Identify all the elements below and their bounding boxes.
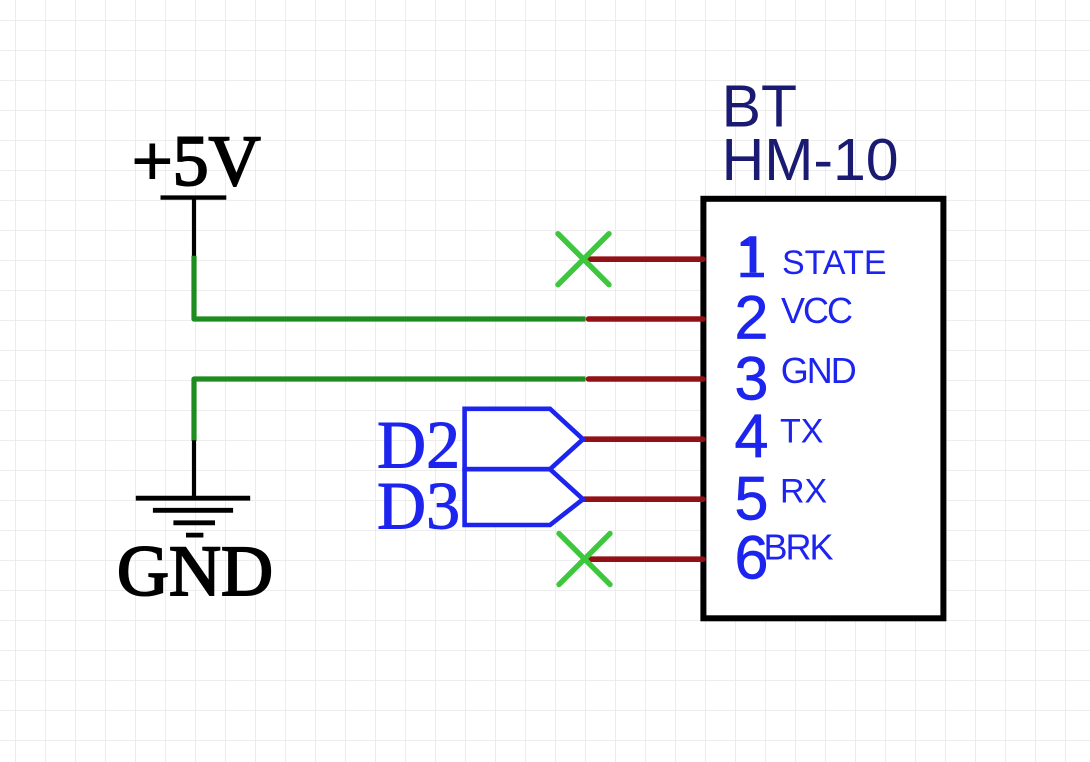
- svg-text:+5V: +5V: [132, 121, 261, 201]
- no-connect X on pin 1: [558, 234, 609, 285]
- svg-text:TX: TX: [780, 413, 823, 451]
- svg-text:2: 2: [735, 283, 769, 351]
- svg-text:HM-10: HM-10: [722, 127, 899, 193]
- net flag D2 (pin 4): [465, 409, 583, 469]
- ground symbol bar 2: [153, 508, 233, 513]
- pin 6 lead (BRK): [585, 556, 703, 562]
- no-connect X on pin 6: [559, 534, 610, 585]
- svg-text:D3: D3: [377, 468, 460, 544]
- pin 1 lead (STATE): [586, 256, 703, 262]
- pin number 1: [740, 236, 764, 277]
- wire pin 3 GND to ground symbol (green): [194, 379, 586, 441]
- svg-text:BRK: BRK: [764, 527, 834, 568]
- ground symbol bar 1: [136, 496, 250, 501]
- net flag D3 (pin 5): [465, 469, 583, 525]
- pin 3 lead (GND): [589, 376, 704, 382]
- wire +5V to pin 2 VCC (green): [194, 256, 586, 319]
- IC U1 body (BT HM-10): [703, 199, 943, 619]
- svg-text:GND: GND: [117, 531, 273, 611]
- svg-text:RX: RX: [780, 472, 827, 510]
- svg-text:5: 5: [735, 465, 769, 533]
- ground symbol bar 3: [173, 520, 215, 525]
- power symbol +5V bar: [161, 195, 227, 199]
- pin 4 lead (TX): [584, 436, 703, 442]
- ground symbol bar 4: [186, 533, 203, 538]
- svg-text:GND: GND: [781, 350, 856, 391]
- pin 2 lead (VCC): [589, 316, 704, 322]
- svg-text:VCC: VCC: [781, 290, 852, 331]
- svg-text:STATE: STATE: [782, 244, 887, 282]
- pin 5 lead (RX): [584, 496, 703, 502]
- power symbol +5V lead: [192, 198, 196, 257]
- ground symbol lead: [192, 440, 196, 497]
- svg-text:4: 4: [735, 402, 769, 470]
